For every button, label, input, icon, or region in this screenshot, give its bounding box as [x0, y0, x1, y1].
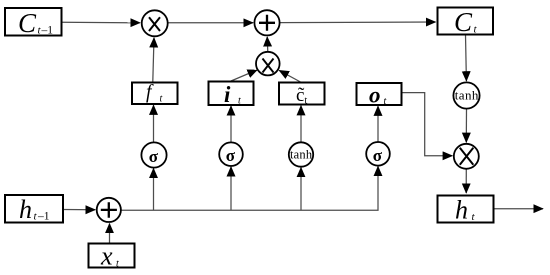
svg-text:t: t [238, 96, 241, 107]
svg-text:–1: –1 [37, 211, 50, 223]
svg-text:t: t [116, 259, 119, 270]
svg-text:σ: σ [226, 146, 236, 165]
svg-text:tanh: tanh [455, 88, 479, 103]
svg-text:σ: σ [149, 147, 159, 166]
svg-text:h: h [455, 196, 468, 225]
svg-text:x: x [100, 242, 113, 271]
svg-text:tanh: tanh [290, 148, 313, 162]
svg-text:C: C [18, 8, 37, 38]
svg-text:C: C [454, 7, 473, 37]
svg-text:i: i [224, 82, 231, 107]
svg-text:σ: σ [373, 146, 383, 165]
svg-text:h: h [19, 195, 32, 224]
svg-text:–1: –1 [41, 25, 54, 37]
svg-text:t: t [305, 96, 308, 107]
svg-text:t: t [160, 94, 163, 105]
svg-text:t: t [384, 96, 387, 107]
svg-text:o: o [369, 83, 381, 108]
